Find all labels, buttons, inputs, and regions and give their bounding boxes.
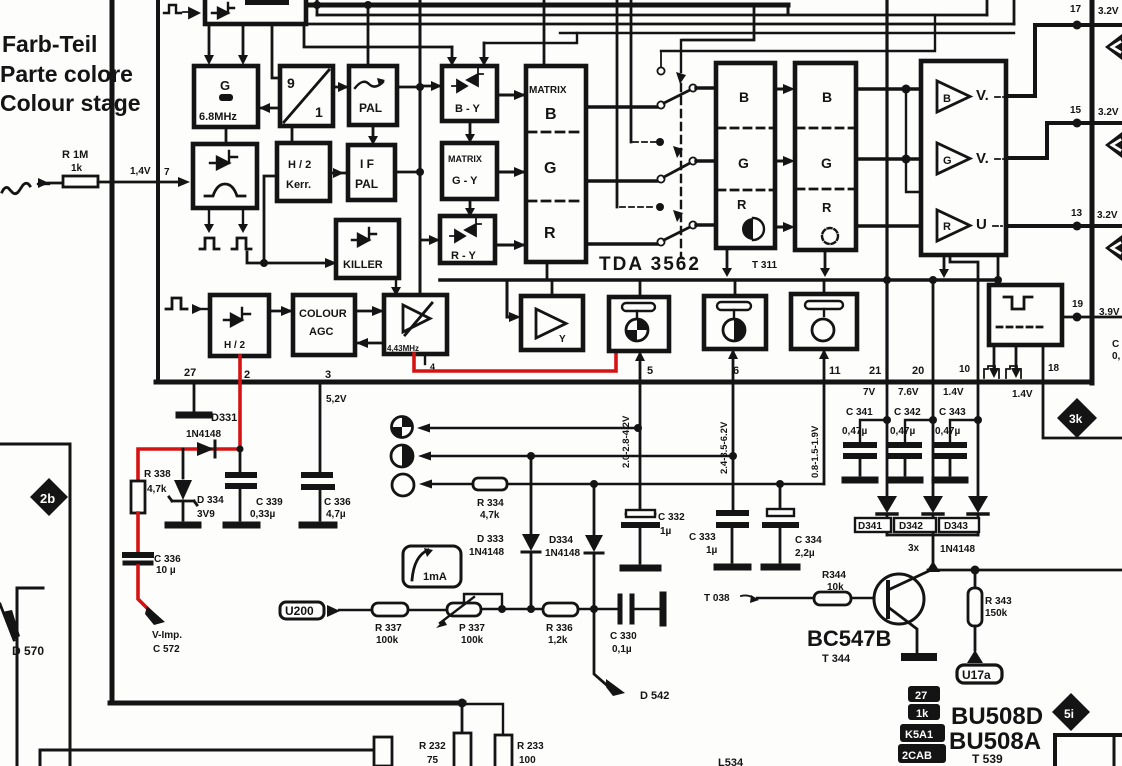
burst gate diode symbol [210, 151, 237, 169]
label C3 cut [1112, 339, 1122, 362]
bottom right inner vertical [1113, 737, 1116, 766]
IC TDA3562 left edge [156, 0, 160, 381]
pin 6 wire down to C333 [732, 382, 735, 509]
saturation top stub [639, 280, 642, 297]
brightness slider symbol [805, 301, 843, 309]
svg-text:C 341: C 341 [846, 407, 873, 418]
sandcastle bottom stub 1 arrow [993, 345, 996, 372]
wire x420 into R-Y left arrow [420, 239, 440, 242]
resistor R 338 [131, 481, 145, 513]
control vertical to R switch [616, 0, 619, 207]
svg-text:I F: I F [360, 157, 374, 171]
ground bar emitter [905, 653, 933, 661]
top block (cut) with diode [205, 0, 306, 24]
block1 dashed divider 1 [718, 127, 773, 130]
svg-text:11: 11 [829, 365, 841, 377]
ground bar C339 [226, 522, 257, 529]
wire AGC to 4.43 lower arrow [355, 342, 384, 345]
MATRIX bottom stub [546, 262, 549, 280]
label V-Imp. C 572 [152, 630, 182, 655]
transistor base bar [886, 582, 890, 617]
svg-text:0,47µ: 0,47µ [890, 426, 915, 437]
G control dot [656, 138, 664, 146]
switch G lower contact [657, 175, 664, 182]
svg-text:G: G [738, 155, 749, 171]
contrast circle icon [723, 319, 745, 341]
pulse symbol below burst gate right [232, 238, 251, 249]
amp triangle R [937, 210, 970, 241]
top block diode symbol [212, 3, 234, 18]
svg-text:2CAB: 2CAB [902, 750, 932, 762]
wire junction to R232 [461, 703, 464, 733]
wire H/2 to COLOUR AGC arrow [269, 310, 293, 313]
svg-text:R 233: R 233 [517, 741, 544, 752]
wire y40 thick to x754 [683, 5, 754, 40]
wire bus down to Y amp input arrow [507, 280, 510, 317]
pin 21 wire below IC [886, 382, 889, 496]
svg-text:7.6V: 7.6V [898, 387, 919, 398]
amp G dashdot [995, 158, 1005, 160]
COLOUR AGC block [293, 295, 355, 355]
label box 1k [908, 704, 940, 720]
svg-text:1N4148: 1N4148 [186, 429, 221, 440]
svg-text:R 334: R 334 [477, 498, 504, 509]
svg-text:0,1µ: 0,1µ [612, 644, 632, 655]
svg-text:Y: Y [559, 334, 566, 345]
svg-text:C 342: C 342 [894, 407, 921, 418]
main vertical bus x887 [885, 0, 888, 382]
G control dashed link [633, 141, 656, 143]
svg-text:10k: 10k [827, 582, 844, 593]
wire x272 into phase shifter [272, 24, 280, 78]
dot wiper junction [498, 605, 506, 613]
brightness top stub [823, 280, 826, 294]
wire sandcastle output pin 19 [1062, 316, 1122, 319]
row3 wire brightness [426, 483, 824, 485]
svg-text:B: B [545, 106, 557, 123]
svg-text:13: 13 [1071, 208, 1083, 219]
pin 6 stub into block arrow [732, 349, 735, 382]
svg-text:TDA 3562: TDA 3562 [599, 254, 701, 275]
svg-text:18: 18 [1048, 363, 1060, 374]
svg-text:G - Y: G - Y [452, 175, 478, 187]
block1 half-moon symbol [742, 218, 753, 240]
svg-text:1k: 1k [71, 163, 83, 174]
svg-text:T 539: T 539 [972, 752, 1003, 766]
capacitor C 339 [228, 472, 254, 478]
svg-text:D331: D331 [211, 412, 237, 424]
wire R337 to P337 [408, 609, 447, 611]
IC TDA3562 right edge [1090, 0, 1095, 383]
svg-text:BU508D: BU508D [951, 703, 1043, 730]
ground bar C342 [890, 477, 920, 484]
svg-text:K5A1: K5A1 [905, 729, 933, 741]
svg-text:G: G [821, 155, 832, 171]
diode D341 [877, 496, 897, 513]
stub top block to oscillator right [242, 24, 245, 60]
wire y51 to x935 [661, 15, 935, 51]
svg-text:4,7k: 4,7k [480, 510, 500, 521]
svg-text:1N4148: 1N4148 [545, 548, 580, 559]
brightness circle icon [812, 319, 834, 341]
wire drop to MATRIX top [543, 0, 546, 66]
H/2 block [210, 295, 269, 356]
wire x420 into B-Y left arrow [420, 85, 442, 88]
dot on G row [902, 155, 911, 164]
svg-text:C 336: C 336 [324, 497, 351, 508]
wire y43 to x577 [484, 33, 577, 43]
svg-text:4,43MHz: 4,43MHz [387, 344, 419, 353]
svg-text:BU508A: BU508A [949, 728, 1041, 755]
title text Farb-Teil / Parte colore / Colour stage [0, 31, 141, 116]
wire y15 long [317, 14, 987, 17]
wire U200 to R337 [339, 609, 372, 611]
sandcastle bottom stub 2 arrow [1015, 345, 1018, 372]
wire B-Y to MATRIX arrow [497, 94, 526, 97]
wire P337 to R336 [481, 608, 543, 610]
wire junction to R233 [462, 704, 503, 735]
svg-text:R: R [737, 197, 747, 212]
resistor R 337 [372, 603, 408, 616]
sandcastle dashed line [997, 326, 1047, 329]
wire x906 down into amp [906, 89, 921, 192]
D570 box corner [17, 588, 43, 766]
wire x304 corner y47 [304, 24, 452, 47]
svg-text:3.2V: 3.2V [1098, 6, 1119, 17]
switch G control arrow [673, 146, 683, 158]
resistor R 336 [543, 603, 578, 616]
MATRIX dashed divider 2 [528, 200, 584, 203]
bottom box top edge [40, 750, 374, 766]
dot row2 pin6 [729, 452, 737, 460]
wire vertical x1014 to top [1013, 0, 1016, 24]
label box 2CAB [898, 744, 946, 763]
top block input pulse symbol [164, 5, 181, 13]
sandcastle cup symbol [1004, 297, 1032, 309]
V-Imp arrowhead [145, 606, 165, 625]
amp bottom stub left with arrow [943, 255, 946, 272]
wire switch G to block1 [696, 159, 716, 162]
wire y33 [560, 32, 1014, 34]
P337 wiper loop [464, 594, 502, 609]
svg-text:D 570: D 570 [12, 644, 44, 658]
amp B dashdot [995, 96, 1005, 98]
svg-text:3.2V: 3.2V [1097, 210, 1118, 221]
wire amp G output to pin 15 [1006, 123, 1122, 158]
IF PAL block [348, 145, 395, 200]
diode D342 [923, 496, 943, 513]
svg-text:1µ: 1µ [660, 526, 672, 537]
svg-text:P 337: P 337 [459, 623, 485, 634]
svg-text:1,4V: 1,4V [130, 166, 151, 177]
wire diodes to collector node [932, 535, 935, 565]
svg-text:D342: D342 [899, 521, 923, 532]
meter block 1mA [403, 546, 461, 587]
R343 end arrow [967, 650, 983, 663]
contrast control block [704, 296, 766, 349]
pin 20 wire below IC [932, 382, 935, 496]
module box bottom edge [110, 701, 464, 706]
label box 27 [908, 686, 940, 702]
C341 branch wire [860, 420, 887, 442]
4.43MHz pin stub [424, 354, 426, 364]
block1 bottom stub T311 left [726, 248, 729, 272]
svg-text:R 232: R 232 [419, 741, 446, 752]
svg-text:C 333: C 333 [689, 532, 716, 543]
diode D334a vertical [593, 484, 596, 535]
pin 3 wire [319, 382, 322, 471]
phase shifter block 90/1 [280, 66, 333, 126]
svg-text:R 338: R 338 [144, 469, 171, 480]
svg-text:COLOUR: COLOUR [299, 308, 347, 320]
wire vertical x317 to top [316, 0, 319, 15]
svg-text:1: 1 [315, 104, 323, 120]
label box K5A1 [900, 724, 945, 742]
red wire C336 to V-Imp arrow [138, 566, 152, 613]
wire PAL bottom to IF PAL top with arrow [372, 125, 375, 140]
label U200 box [280, 602, 324, 619]
switch B control arrow [676, 72, 686, 84]
svg-text:U17a: U17a [962, 668, 991, 682]
svg-text:C 336: C 336 [154, 554, 181, 565]
svg-text:R - Y: R - Y [451, 250, 477, 262]
pin 11 wire down corner [823, 382, 826, 484]
wire drop x420 vertical long [419, 0, 422, 295]
svg-text:27: 27 [184, 367, 196, 379]
svg-text:B: B [822, 89, 832, 105]
wire drop into B-Y top right with arrow [483, 43, 486, 62]
svg-text:20: 20 [912, 365, 924, 377]
svg-text:H / 2: H / 2 [224, 340, 246, 351]
resistor R 232 [454, 733, 471, 766]
pin 27 end bar D331 [179, 412, 209, 419]
wire G-Y bottom to R-Y with arrow [469, 199, 472, 212]
D570 arrow symbol [2, 610, 20, 640]
diode D331 on red wire [197, 442, 214, 456]
wire drop into B-Y top left with arrow [451, 47, 454, 62]
resistor R 233 [495, 735, 512, 766]
saturation slider symbol [622, 303, 655, 311]
dot pin17 [1073, 21, 1082, 30]
svg-text:1,2k: 1,2k [548, 635, 568, 646]
row2 wire contrast from pin6 [425, 455, 733, 457]
svg-text:15: 15 [1070, 105, 1082, 116]
svg-text:B - Y: B - Y [455, 103, 481, 115]
switch R lower contact [657, 238, 664, 245]
wire R336 to C330 [578, 608, 617, 610]
demodulator block B-Y [442, 66, 497, 121]
MATRIX RGB block [526, 66, 586, 262]
PAL block [349, 66, 397, 125]
svg-text:5,2V: 5,2V [326, 394, 347, 405]
burst gate hump symbol [205, 184, 245, 196]
saturation circle icon [626, 319, 648, 341]
brightness knob icon [392, 474, 414, 496]
pin 20 internal stub [932, 280, 935, 382]
svg-text:B: B [739, 89, 749, 105]
svg-text:1.4V: 1.4V [943, 387, 964, 398]
burst gate block [193, 144, 257, 208]
label 3x 1N4148 [908, 543, 975, 555]
capacitor C 336 4,7u [304, 472, 332, 478]
svg-text:5i: 5i [1064, 707, 1074, 721]
svg-text:3.9V: 3.9V [1099, 307, 1120, 318]
block1 dashed divider 2 [718, 189, 773, 192]
amp triangle G [937, 143, 970, 174]
svg-text:R 336: R 336 [546, 623, 573, 634]
wire H/2 Kerr left edge down to killer wire [264, 176, 277, 263]
junction dot x420 y172 [416, 168, 424, 176]
pin 5 stub into block arrow [639, 351, 642, 382]
resistor R 343 [974, 570, 977, 588]
pin 21 internal stub [886, 280, 889, 382]
arrow into burst gate block [178, 177, 190, 187]
svg-text:D 542: D 542 [640, 690, 669, 702]
offpage diamond 2b [30, 478, 68, 516]
capacitor C 334 [779, 484, 782, 509]
switch B lever [664, 90, 690, 103]
svg-text:2,2µ: 2,2µ [795, 548, 815, 559]
wire 2b horizontal [0, 443, 70, 446]
offpage diamond pin17 [1105, 34, 1122, 60]
amp R dashdot [993, 225, 1005, 227]
arrow block1 to block2 row B [775, 88, 784, 91]
pulse symbol pin18 [1006, 366, 1021, 378]
svg-text:T 038: T 038 [704, 593, 730, 604]
contrast knob icon [391, 445, 413, 467]
svg-text:KILLER: KILLER [343, 259, 383, 271]
wire amp B output to pin 17 [1006, 25, 1122, 96]
clamp block1 BGR [716, 63, 775, 248]
transistor emitter lead [888, 607, 917, 652]
svg-text:C 334: C 334 [795, 535, 822, 546]
4.43MHz crossed amp symbol [403, 303, 432, 335]
stub top block to oscillator left [208, 24, 211, 60]
svg-text:U: U [976, 216, 987, 233]
svg-text:U200: U200 [285, 604, 314, 618]
killer input wire [247, 252, 336, 263]
module box left edge [110, 0, 115, 700]
ground bar C341 [845, 477, 875, 484]
switch G right contact [689, 157, 696, 164]
svg-text:21: 21 [869, 365, 881, 377]
KILLER diode symbol [352, 228, 376, 246]
block2 dashed divider 1 [797, 127, 854, 130]
wire H/2 Kerr to IF PAL with arrow [330, 172, 348, 175]
C330 terminator bar [660, 595, 667, 623]
ground bar C343 [935, 477, 965, 484]
wire oscillator to phase shifter with left arrow [258, 107, 280, 110]
offpage diamond pin13 [1105, 235, 1122, 261]
wire PAL out to x420 [397, 86, 420, 89]
svg-text:0,47µ: 0,47µ [842, 426, 867, 437]
wire block2 R out to amp [856, 224, 921, 227]
top bus step down segment [787, 5, 790, 14]
top bus thick [307, 3, 788, 8]
svg-text:2.4-3.5-6.2V: 2.4-3.5-6.2V [719, 421, 730, 474]
bottom small resistor box [374, 737, 392, 766]
svg-text:D341: D341 [858, 521, 882, 532]
svg-text:1N4148: 1N4148 [469, 547, 504, 558]
svg-text:3: 3 [325, 369, 331, 381]
svg-text:3x: 3x [908, 543, 920, 554]
svg-text:R 343: R 343 [985, 596, 1012, 607]
svg-text:C 343: C 343 [939, 407, 966, 418]
svg-text:R344: R344 [822, 570, 846, 581]
capacitor C 332 [626, 513, 655, 516]
dot module bottom junction [458, 699, 467, 708]
wire input to R1M [48, 182, 63, 185]
dot pin21 bus [883, 276, 891, 284]
svg-text:MATRIX: MATRIX [448, 154, 482, 164]
4.43MHz block [384, 295, 447, 354]
dot row1 pin5 [634, 424, 642, 432]
label box U17a [957, 665, 1002, 683]
clamp block2 BGR [795, 63, 856, 250]
arrow block1 to block2 row R [775, 226, 784, 229]
svg-text:B: B [943, 93, 951, 105]
diode D333 vertical [530, 456, 533, 534]
R control dashed link [620, 206, 656, 208]
switch R lever [664, 227, 690, 240]
svg-text:C 339: C 339 [256, 497, 283, 508]
switch B control stub from bus [680, 40, 682, 72]
resistor R 334 [473, 478, 507, 490]
oscillator block G 6.8MHz [194, 66, 258, 127]
svg-text:5: 5 [647, 365, 653, 377]
R control dot [656, 203, 664, 211]
wire R1M to pin 7 [98, 181, 180, 184]
input arrow [38, 183, 49, 185]
red wire R338 to C336 [136, 513, 140, 552]
svg-text:R: R [943, 221, 951, 233]
junction dot killer wire [260, 259, 268, 267]
resistor R 344 [814, 592, 851, 605]
block2 bottom stub T311 right [824, 250, 827, 272]
svg-text:Kerr.: Kerr. [286, 179, 311, 191]
svg-text:H / 2: H / 2 [288, 159, 311, 171]
svg-text:0.8-1.5-1.9V: 0.8-1.5-1.9V [810, 425, 821, 478]
amp bottom stub to pin10 line [950, 255, 978, 382]
dashed control line vertical [680, 84, 682, 258]
ground bar C332 [623, 565, 658, 572]
dot on B row [902, 85, 911, 94]
pin 11 stub into block arrow [823, 349, 826, 382]
svg-text:6.8MHz: 6.8MHz [199, 111, 237, 123]
H/2 diode symbol [224, 308, 250, 326]
wire amp R output to pin 13 [1006, 224, 1122, 228]
svg-text:Farb-Teil: Farb-Teil [2, 31, 97, 57]
svg-text:R: R [822, 200, 832, 215]
zener D334 branch [182, 449, 185, 478]
capacitor C339 branch [239, 449, 242, 471]
bottom right box corner [1055, 735, 1122, 766]
svg-text:1N4148: 1N4148 [940, 544, 975, 555]
capacitor C 342 [891, 442, 919, 448]
svg-text:PAL: PAL [359, 101, 382, 115]
dot pin15 [1073, 119, 1082, 128]
svg-text:R 337: R 337 [375, 623, 402, 634]
svg-text:C 572: C 572 [153, 644, 180, 655]
contrast top stub [734, 280, 737, 296]
amp triangle B [937, 81, 970, 112]
svg-text:100: 100 [519, 755, 536, 766]
wire MATRIX B out [586, 105, 657, 108]
transistor BC547B circle [874, 574, 924, 624]
svg-text:4,7µ: 4,7µ [326, 509, 346, 520]
wire MATRIX R out [586, 242, 657, 245]
pin 5 wire down to C332 [639, 382, 642, 511]
